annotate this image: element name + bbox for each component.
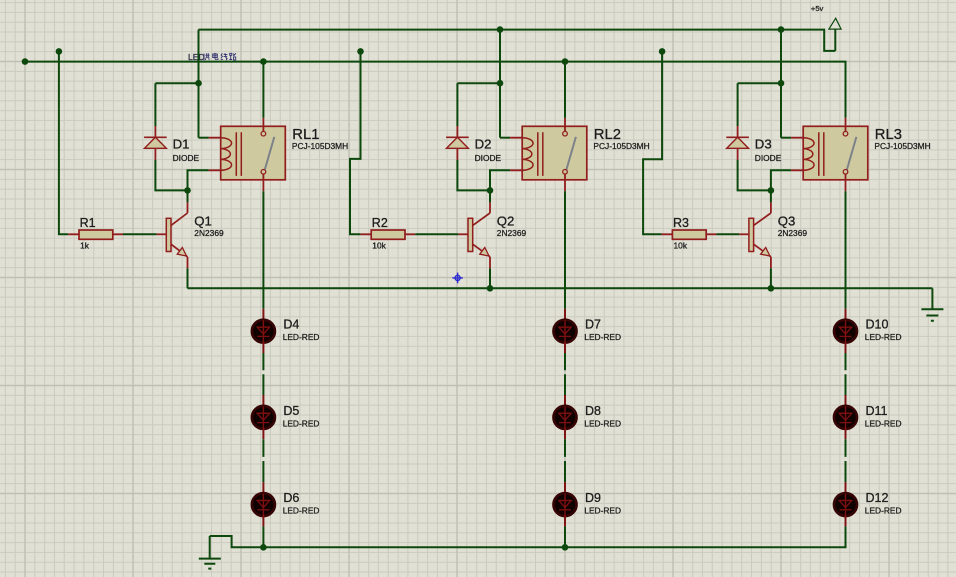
wire base drive input R3 (643, 51, 662, 234)
LED D7 (554, 309, 622, 353)
wire base drive input R1 (59, 51, 68, 234)
svg-text:D7: D7 (585, 318, 601, 332)
svg-text:LED-RED: LED-RED (865, 332, 902, 342)
wire coil bottom link (188, 170, 209, 190)
junction (357, 48, 364, 55)
wire R to base (123, 233, 157, 235)
svg-text:R1: R1 (80, 216, 96, 230)
wire relay switch feed (262, 62, 264, 118)
svg-text:10k: 10k (674, 241, 688, 251)
wire LED series link (564, 439, 566, 482)
junction (497, 80, 504, 87)
svg-text:R3: R3 (673, 216, 689, 230)
junction (562, 544, 569, 551)
junction (562, 58, 569, 65)
wire LED cathode bottom rail (210, 526, 846, 547)
svg-text:D4: D4 (283, 318, 299, 332)
junction (768, 187, 775, 194)
svg-text:2N2369: 2N2369 (194, 228, 224, 238)
wire diode cathode to node (738, 160, 771, 191)
wire collector link (770, 190, 772, 202)
svg-text:Q2: Q2 (497, 213, 515, 228)
relay RL1 (209, 118, 349, 191)
svg-text:LED-RED: LED-RED (584, 506, 621, 516)
wire relay pole to LED chain (845, 191, 847, 309)
junction (768, 285, 775, 292)
junction (778, 26, 785, 33)
LED D5 (252, 395, 320, 439)
junction (195, 80, 202, 87)
resistor R1 (68, 216, 123, 251)
svg-text:PCJ-105D3MH: PCJ-105D3MH (874, 141, 930, 151)
svg-text:LED: LED (188, 52, 205, 62)
relay RL2 (510, 118, 650, 191)
wire diode branch D1 (155, 83, 198, 126)
svg-text:D9: D9 (585, 491, 601, 505)
wire relay switch feed (564, 62, 566, 118)
wire coil top link (781, 137, 791, 139)
svg-text:D1: D1 (173, 137, 190, 152)
svg-text:+5v: +5v (811, 4, 824, 13)
LED D10 (834, 309, 902, 353)
wire LED supply rail (25, 62, 846, 118)
svg-text:D3: D3 (755, 137, 772, 152)
svg-text:DIODE: DIODE (475, 153, 502, 163)
power terminal +5v (811, 4, 841, 51)
svg-text:LED-RED: LED-RED (865, 506, 902, 516)
svg-text:Q1: Q1 (194, 213, 212, 228)
transistor Q3 (739, 202, 807, 268)
wire coil feed RL3 (780, 30, 782, 138)
svg-text:D5: D5 (283, 404, 299, 418)
svg-text:D10: D10 (866, 318, 889, 332)
svg-text:LED-RED: LED-RED (283, 332, 320, 342)
junction (260, 58, 267, 65)
transistor Q2 (458, 202, 526, 268)
wire diode branch D3 (738, 83, 781, 126)
wire R to base (716, 233, 739, 235)
wire collector link (187, 190, 189, 202)
svg-text:PCJ-105D3MH: PCJ-105D3MH (593, 141, 649, 151)
wire LED chain to bottom rail (845, 525, 847, 527)
svg-text:D8: D8 (585, 404, 601, 418)
junction (487, 285, 494, 292)
resistor R3 (662, 216, 717, 251)
svg-text:1k: 1k (80, 241, 90, 251)
ground (bottom left) (199, 536, 221, 569)
junction (260, 544, 267, 551)
wire emitter to ground rail (187, 268, 189, 288)
junction rail end (22, 58, 29, 65)
wire coil bottom link (771, 170, 791, 190)
wire emitter to ground rail (770, 268, 772, 288)
svg-text:LED-RED: LED-RED (865, 418, 902, 428)
wire relay pole to LED chain (262, 191, 264, 309)
wire LED series link (262, 353, 264, 395)
wire LED chain to bottom rail (564, 526, 566, 547)
wire R to base (415, 233, 458, 235)
wire base drive input R2 (350, 51, 361, 234)
svg-text:LED-RED: LED-RED (283, 506, 320, 516)
junction (659, 48, 666, 55)
svg-text:2N2369: 2N2369 (778, 228, 808, 238)
LED D9 (554, 482, 622, 526)
wire collector link (489, 190, 491, 202)
junction (487, 187, 494, 194)
svg-text:LED-RED: LED-RED (584, 418, 621, 428)
svg-text:LED-RED: LED-RED (283, 418, 320, 428)
wire LED series link (262, 439, 264, 482)
wire LED series link (845, 439, 847, 482)
transistor Q1 (157, 202, 224, 268)
net label LED supply line (LED + CJK glyphs) (188, 52, 236, 62)
relay RL3 (791, 118, 931, 191)
wire diode cathode to node (155, 160, 187, 191)
svg-text:DIODE: DIODE (173, 153, 200, 163)
wire LED series link (845, 353, 847, 395)
wire LED chain to bottom rail (262, 526, 264, 547)
resistor R2 (360, 216, 415, 251)
svg-text:DIODE: DIODE (755, 153, 782, 163)
LED D12 (834, 482, 902, 526)
wire diode branch D2 (457, 83, 500, 126)
svg-text:D11: D11 (866, 404, 888, 418)
wire coil feed RL1 (198, 30, 200, 138)
wire coil feed RL2 (499, 30, 501, 138)
junction (184, 187, 191, 194)
wire coil bottom link (490, 170, 510, 190)
wire coil top link (199, 137, 209, 139)
wire emitter ground rail (188, 287, 933, 289)
junction (778, 80, 785, 87)
wire diode cathode to node (457, 160, 490, 191)
svg-text:Q3: Q3 (778, 213, 796, 228)
svg-text:10k: 10k (372, 241, 386, 251)
diode D2 (446, 126, 501, 163)
junction (56, 48, 63, 55)
origin marker (blue crosshair) (452, 273, 463, 284)
wire +5V coil supply rail (199, 30, 836, 51)
LED D6 (252, 482, 320, 526)
wire emitter to ground rail (489, 268, 491, 288)
wire coil top link (500, 137, 510, 139)
svg-text:D12: D12 (866, 491, 889, 505)
svg-text:R2: R2 (372, 216, 388, 230)
svg-text:LED-RED: LED-RED (584, 332, 621, 342)
svg-text:D6: D6 (283, 491, 299, 505)
LED D8 (554, 395, 622, 439)
junction (497, 26, 504, 33)
wire relay pole to LED chain (564, 191, 566, 309)
LED D11 (834, 395, 902, 439)
ground (right) (921, 288, 943, 321)
svg-text:D2: D2 (475, 137, 492, 152)
diode D3 (726, 126, 781, 163)
svg-text:2N2369: 2N2369 (497, 228, 527, 238)
LED D4 (252, 309, 320, 353)
svg-text:PCJ-105D3MH: PCJ-105D3MH (292, 141, 348, 151)
wire LED series link (564, 353, 566, 395)
diode D1 (144, 126, 199, 163)
